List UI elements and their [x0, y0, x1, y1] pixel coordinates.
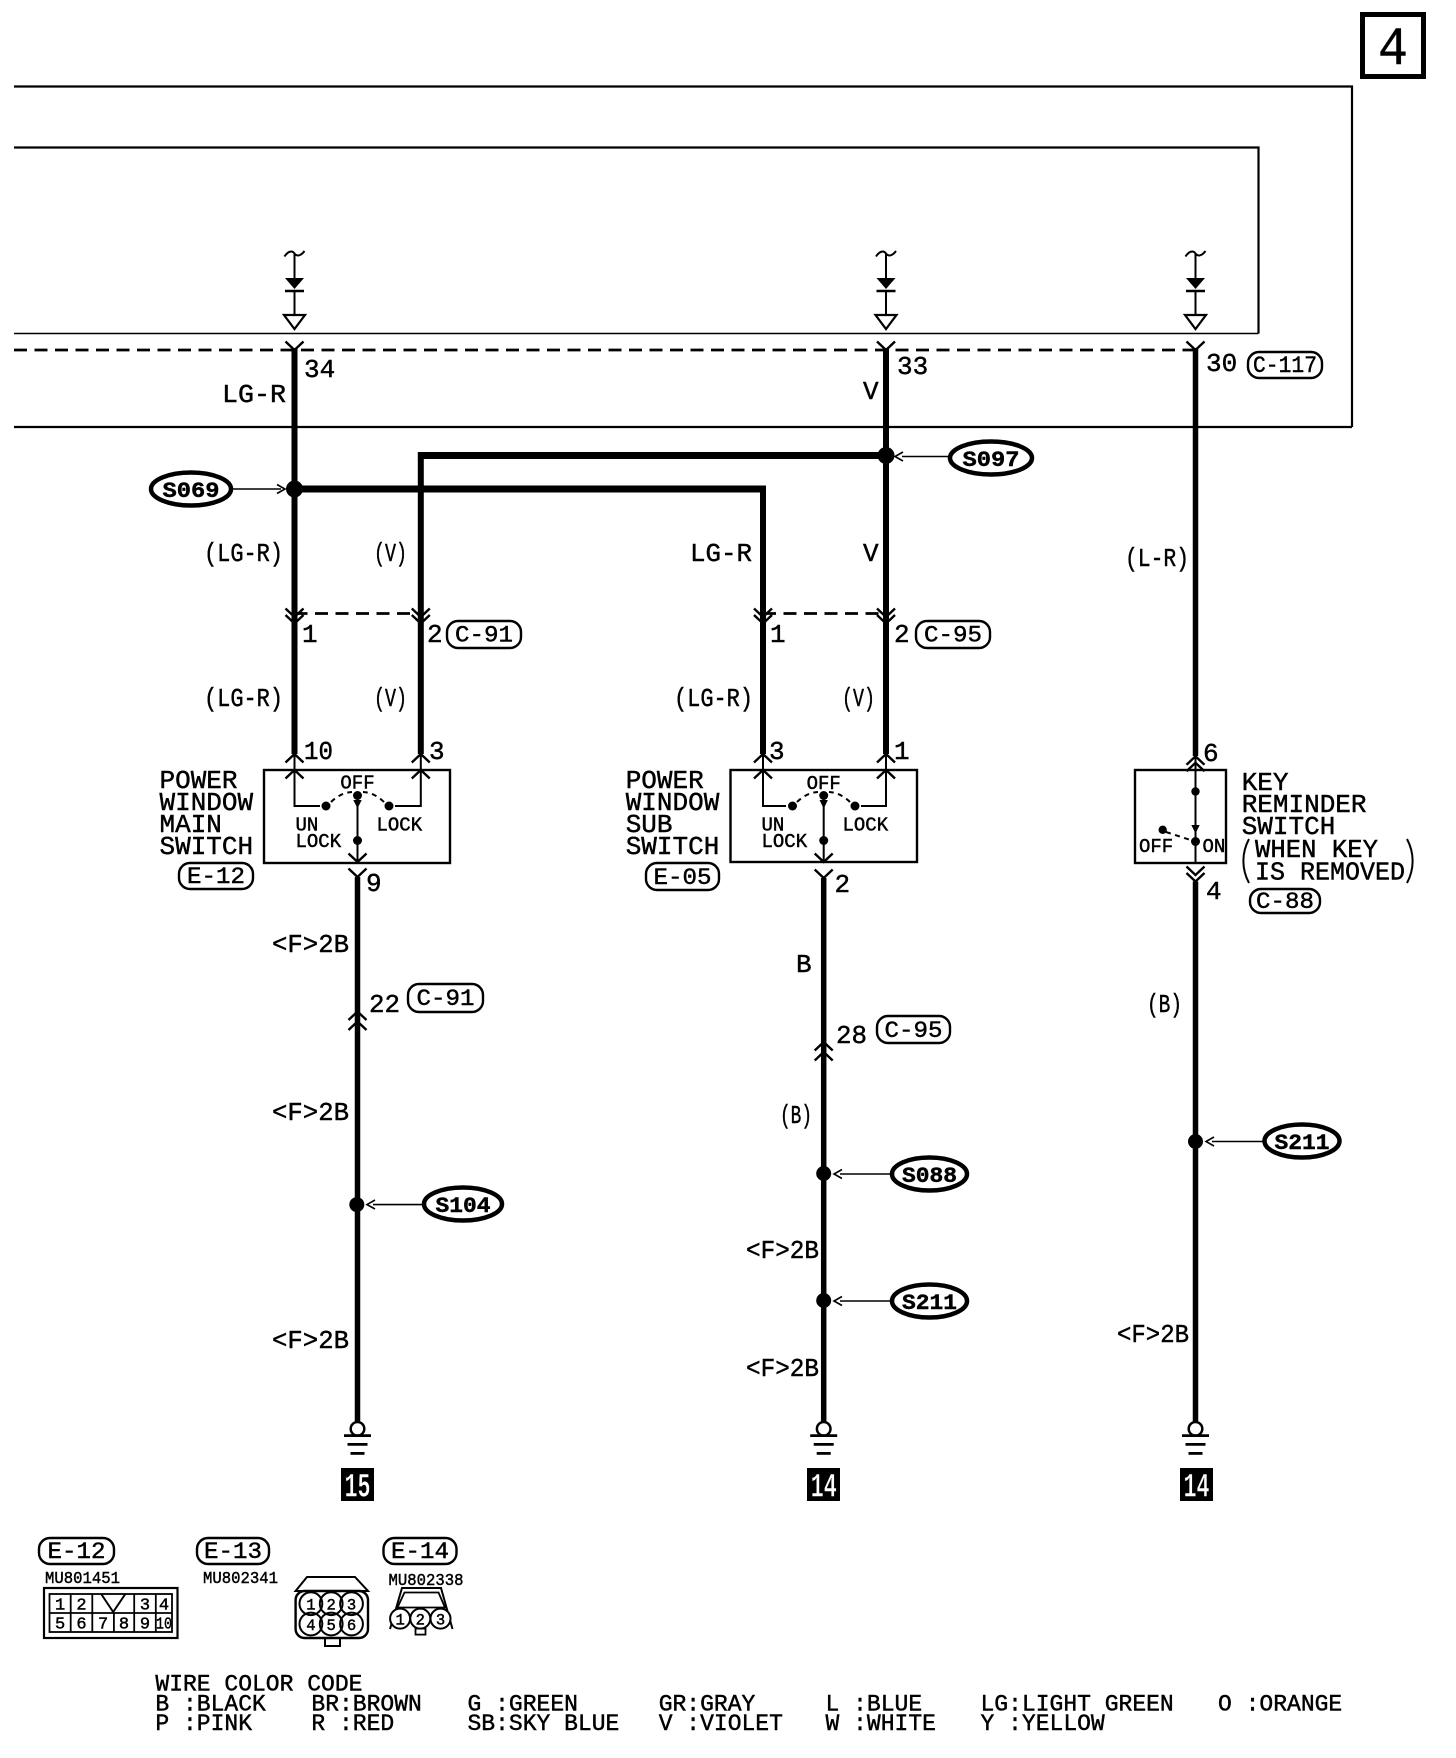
svg-text:V :VIOLET: V :VIOLET — [659, 1711, 783, 1737]
bus line inner top — [14, 148, 1259, 334]
svg-text:<F>2B: <F>2B — [272, 1326, 349, 1356]
splice dot S088 — [816, 1166, 831, 1181]
svg-text:SWITCH: SWITCH — [626, 832, 720, 862]
svg-text:1: 1 — [55, 1597, 65, 1616]
splice label S088 — [834, 1158, 967, 1191]
svg-text:C-117: C-117 — [1253, 353, 1317, 379]
bus line bottom — [14, 426, 1352, 428]
C-95 chevrons wire D — [877, 609, 895, 624]
svg-text:9: 9 — [140, 1616, 150, 1635]
pin 30 terminal chevron — [1187, 342, 1205, 351]
key switch pin4 chevrons — [1187, 867, 1205, 882]
ground ref 14 — [807, 1468, 840, 1508]
svg-text:O :ORANGE: O :ORANGE — [1218, 1692, 1342, 1718]
splice label S104 — [367, 1188, 502, 1221]
label POWER WINDOW SUB SWITCH — [626, 766, 720, 862]
diode D3 — [1185, 251, 1206, 329]
svg-text:8: 8 — [119, 1616, 129, 1635]
ground symbol 1 — [344, 1422, 371, 1453]
power window sub switch box E-05 — [731, 770, 918, 862]
splice dot S211 wire3 — [1188, 1134, 1203, 1149]
connector C-95 dashed line — [763, 612, 886, 615]
ground ref 14 b — [1180, 1468, 1213, 1508]
connector C-91 label — [447, 621, 521, 649]
svg-text:22: 22 — [369, 990, 400, 1020]
connector C-91 label lower — [408, 984, 483, 1012]
svg-text:(LG-R): (LG-R) — [204, 539, 283, 569]
ground ref 15 — [341, 1468, 374, 1508]
svg-text:LG-R: LG-R — [222, 380, 286, 410]
diode D1 — [284, 251, 305, 329]
terminal arrows main pin3 — [412, 754, 430, 779]
splice label S069 — [151, 473, 285, 506]
svg-text:LOCK: LOCK — [762, 831, 808, 853]
junction dot S097 — [878, 447, 895, 464]
connector E-14 detail label — [384, 1538, 457, 1565]
svg-text:B: B — [796, 950, 812, 980]
svg-text:(LG-R): (LG-R) — [204, 684, 283, 714]
connector C-91 dashed line — [295, 612, 421, 615]
svg-text:(V): (V) — [374, 539, 407, 569]
svg-text:(L-R): (L-R) — [1125, 544, 1189, 574]
svg-text:1: 1 — [395, 1611, 404, 1629]
svg-text:MU802341: MU802341 — [203, 1569, 278, 1588]
connector E-05 label — [646, 863, 719, 891]
svg-text:C-88: C-88 — [1256, 889, 1314, 915]
svg-text:14: 14 — [811, 1470, 837, 1508]
splice label S211 wire3 — [1206, 1125, 1340, 1158]
ground symbol 3 — [1182, 1422, 1209, 1453]
connector C-95 label lower — [877, 1016, 950, 1044]
C-91 chevrons wire A — [286, 609, 304, 624]
bus line thin — [14, 333, 1259, 335]
terminal arrows sub pin3 — [754, 754, 772, 779]
svg-text:E-12: E-12 — [187, 864, 245, 890]
svg-text:3: 3 — [347, 1597, 356, 1615]
svg-text:S104: S104 — [436, 1194, 491, 1219]
svg-text:LOCK: LOCK — [296, 831, 342, 853]
svg-text:ON: ON — [1203, 836, 1226, 858]
main switch internal contacts — [295, 754, 421, 862]
svg-text:4: 4 — [1378, 20, 1408, 81]
bus line outer top — [14, 87, 1352, 428]
svg-text:OFF: OFF — [340, 773, 374, 795]
connector E-12 pin face — [44, 1588, 178, 1638]
svg-text:C-91: C-91 — [455, 623, 513, 649]
splice dot S104 — [349, 1197, 364, 1212]
connector E-14 pin face — [390, 1588, 453, 1635]
svg-text:2: 2 — [416, 1611, 425, 1629]
E-12 pin numbers — [55, 1597, 172, 1635]
label POWER WINDOW MAIN SWITCH — [160, 766, 254, 862]
svg-text:<F>2B: <F>2B — [746, 1236, 819, 1266]
svg-text:E-14: E-14 — [391, 1539, 449, 1565]
svg-text:V: V — [863, 377, 879, 407]
svg-text:P :PINK: P :PINK — [155, 1711, 252, 1737]
svg-text:7: 7 — [98, 1616, 108, 1635]
connector E-12 label — [179, 863, 253, 890]
C-95 pass-through chevrons wire2 — [815, 1042, 833, 1061]
main switch pin9 chevrons — [349, 854, 367, 878]
wire E L-R vertical (pin30 to key reminder switch) — [1193, 348, 1199, 756]
svg-text:C-91: C-91 — [417, 986, 475, 1012]
svg-text:E-13: E-13 — [204, 1539, 262, 1565]
svg-text:Y :YELLOW: Y :YELLOW — [981, 1711, 1105, 1737]
svg-text:<F>2B: <F>2B — [1117, 1320, 1189, 1350]
svg-text:2: 2 — [427, 620, 443, 650]
terminal arrows key pin6 — [1187, 756, 1205, 771]
svg-text:S211: S211 — [1275, 1131, 1330, 1156]
svg-text:<F>2B: <F>2B — [272, 1098, 349, 1128]
svg-text:C-95: C-95 — [885, 1018, 943, 1044]
connector C-88 label — [1250, 889, 1320, 915]
connector C-95 label — [916, 621, 990, 649]
key switch internals — [1166, 756, 1196, 862]
svg-text:(LG-R): (LG-R) — [674, 684, 753, 714]
sub switch internal contacts — [763, 754, 886, 861]
svg-text:(V): (V) — [374, 684, 407, 714]
svg-text:MU801451: MU801451 — [45, 1569, 120, 1588]
splice dot S211 wire2 — [816, 1293, 831, 1308]
C-91 chevrons wire B — [412, 609, 430, 624]
svg-text:OFF: OFF — [1139, 836, 1173, 858]
svg-text:2: 2 — [327, 1597, 336, 1615]
svg-text:4: 4 — [159, 1597, 169, 1616]
svg-text:S097: S097 — [963, 448, 1020, 473]
connector E-12 detail label — [39, 1538, 114, 1565]
connector E-13 detail label — [197, 1538, 269, 1565]
ground wire 1 (main switch pin9 to ground) — [355, 877, 361, 1422]
svg-text:SB:SKY BLUE: SB:SKY BLUE — [468, 1711, 620, 1737]
svg-text:S211: S211 — [902, 1291, 957, 1316]
connector C-117 label — [1248, 352, 1322, 379]
svg-text:5: 5 — [55, 1616, 65, 1635]
svg-text:R :RED: R :RED — [311, 1711, 394, 1737]
svg-text:33: 33 — [897, 352, 928, 382]
label KEY REMINDER SWITCH (WHEN KEY IS REMOVED) — [1242, 768, 1413, 888]
svg-text:1: 1 — [302, 620, 318, 650]
splice S069 horizontal wire — [295, 486, 764, 493]
splice label S097 — [895, 442, 1032, 475]
wire D V vertical (pin33 to sub switch pin1) — [883, 348, 889, 754]
svg-text:W :WHITE: W :WHITE — [826, 1711, 936, 1737]
splice label S211 wire2 — [834, 1285, 967, 1318]
ground symbol 2 — [810, 1422, 837, 1453]
wire color code row 1 — [155, 1692, 1342, 1718]
ground wire 2 (sub switch pin2 to ground) — [821, 878, 827, 1422]
svg-text:30: 30 — [1206, 349, 1237, 379]
junction dot S069 — [286, 481, 303, 498]
page number box 4 — [1363, 15, 1424, 82]
svg-text:LOCK: LOCK — [843, 815, 889, 837]
connector C-117 dashed line — [14, 349, 1196, 352]
diode D2 — [876, 251, 897, 329]
svg-text:C-95: C-95 — [924, 623, 982, 649]
svg-text:IS REMOVED: IS REMOVED — [1255, 858, 1405, 888]
svg-text:(B): (B) — [1147, 990, 1182, 1020]
svg-text:<F>2B: <F>2B — [746, 1354, 819, 1384]
svg-text:10: 10 — [304, 737, 333, 767]
ground wire 3 (key switch pin4 to ground) — [1193, 882, 1199, 1423]
svg-text:S088: S088 — [902, 1164, 957, 1189]
terminal arrows main pin10 — [286, 754, 304, 779]
pin 33 terminal chevron — [877, 342, 895, 351]
connector E-13 pin face — [296, 1577, 368, 1646]
svg-text:SWITCH: SWITCH — [160, 832, 254, 862]
svg-text:2: 2 — [835, 870, 851, 900]
svg-text:3: 3 — [140, 1597, 150, 1616]
C-95 chevrons wire C — [754, 609, 772, 624]
svg-text:(B): (B) — [780, 1101, 812, 1131]
svg-text:E-12: E-12 — [48, 1539, 106, 1565]
main switch contact dots — [322, 791, 394, 845]
svg-text:6: 6 — [1203, 739, 1219, 769]
svg-text:6: 6 — [347, 1617, 356, 1635]
C-91 pass-through chevrons wire1 — [349, 1012, 367, 1031]
svg-text:14: 14 — [1184, 1470, 1210, 1508]
svg-text:V: V — [863, 539, 879, 569]
power window main switch box E-12 — [264, 770, 450, 863]
svg-text:28: 28 — [836, 1021, 867, 1051]
svg-text:4: 4 — [1206, 877, 1222, 907]
svg-text:1: 1 — [894, 737, 910, 767]
svg-text:10: 10 — [156, 1616, 172, 1635]
key reminder switch box C-88 — [1135, 770, 1226, 863]
svg-text:5: 5 — [327, 1617, 336, 1635]
terminal arrows sub pin1 — [877, 754, 895, 779]
pin 34 terminal chevron — [286, 342, 304, 351]
svg-text:3: 3 — [429, 737, 445, 767]
svg-text:3: 3 — [436, 1611, 445, 1629]
wire color code row 2 — [155, 1711, 1105, 1737]
wire C LG-R vertical (S069 to sub switch pin3) — [760, 486, 766, 755]
svg-text:6: 6 — [76, 1616, 86, 1635]
svg-text:LG-R: LG-R — [690, 539, 752, 569]
svg-text:2: 2 — [76, 1597, 86, 1616]
svg-text:OFF: OFF — [807, 773, 841, 795]
svg-text:34: 34 — [304, 355, 335, 385]
sub switch contact dots — [788, 791, 860, 845]
svg-text:(V): (V) — [842, 684, 875, 714]
wire A LG-R vertical (pin34 to main switch pin10) — [292, 348, 298, 754]
svg-text:1: 1 — [770, 620, 786, 650]
key switch contact dots — [1159, 787, 1201, 846]
svg-text:4: 4 — [306, 1617, 315, 1635]
svg-text:<F>2B: <F>2B — [272, 930, 349, 960]
svg-text:15: 15 — [345, 1470, 371, 1508]
svg-text:LOCK: LOCK — [377, 815, 423, 837]
svg-text:2: 2 — [894, 620, 910, 650]
wire B V vertical (S097 to main switch pin3) — [418, 452, 424, 754]
svg-text:S069: S069 — [163, 479, 220, 504]
splice S097 horizontal wire — [421, 452, 886, 459]
svg-text:E-05: E-05 — [654, 865, 712, 891]
svg-text:9: 9 — [366, 869, 382, 899]
sub switch pin2 chevrons — [815, 854, 833, 879]
svg-text:1: 1 — [306, 1597, 315, 1615]
